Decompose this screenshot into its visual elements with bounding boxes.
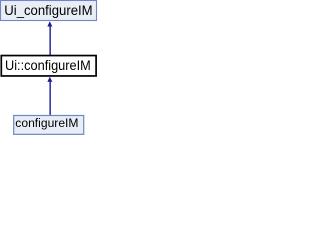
- svg-text:Ui_configureIM: Ui_configureIM: [4, 3, 92, 19]
- class inheritance diagram: [0, 0, 98, 136]
- class box configureIM (derived class): [14, 116, 84, 135]
- class box Ui_configureIM (base class): [1, 1, 97, 21]
- svg-text:configureIM: configureIM: [15, 116, 78, 130]
- svg-text:Ui::configureIM: Ui::configureIM: [5, 58, 91, 74]
- inheritance arrow: configureIM -> Ui::configureIM: [47, 77, 52, 116]
- class box Ui::configureIM (current class): [1, 56, 96, 76]
- inheritance arrow: Ui::configureIM -> Ui_configureIM: [47, 21, 52, 55]
- background: [0, 0, 98, 136]
